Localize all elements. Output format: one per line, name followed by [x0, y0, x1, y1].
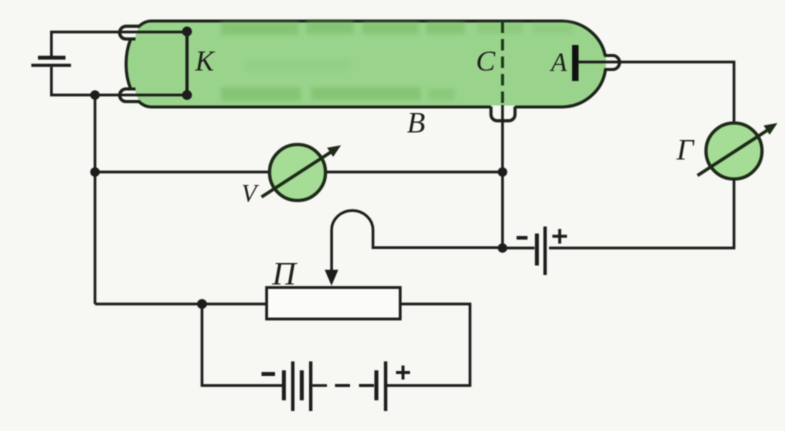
wire: wiper hop — [332, 211, 503, 271]
cathode seal bottom (glass pinch) — [120, 89, 140, 102]
galvanometer Г — [698, 123, 778, 179]
svg-text:В: В — [407, 107, 425, 140]
grid C (dashed electrode) — [501, 22, 504, 106]
potentiometer П body — [267, 288, 401, 320]
dashed link — [335, 384, 374, 387]
filament battery (left) : top short plate — [38, 56, 66, 60]
voltmeter V — [262, 145, 342, 201]
junction: grid wire / anode battery line — [498, 243, 508, 253]
wire: voltmeter line — [95, 171, 503, 174]
wiper arrowhead — [325, 270, 339, 286]
grid seal (bottom pinch) — [491, 106, 515, 121]
wire: anode lead to galvanometer branch — [578, 62, 734, 123]
junction: bottom branch — [197, 299, 207, 309]
svg-text:К: К — [194, 47, 215, 78]
anode battery plus sign — [552, 229, 567, 244]
vacuum tube envelope B — [120, 21, 620, 121]
anode battery: long (positive) plate — [543, 227, 546, 276]
wire: battery top lead — [51, 32, 187, 56]
wire: grid lead down — [501, 105, 504, 248]
main battery cell3 short plate — [374, 370, 378, 400]
cathode seal top (glass pinch) — [120, 26, 140, 39]
main battery cell2 long plate — [309, 361, 312, 411]
svg-text:С: С — [476, 46, 496, 78]
svg-text:А: А — [549, 48, 567, 77]
wire: junction down to main battery — [202, 304, 283, 386]
svg-text:П: П — [271, 257, 298, 293]
svg-text:Г: Г — [675, 134, 695, 167]
wire: battery bottom lead — [51, 67, 187, 95]
wire: left vertical bus — [94, 95, 97, 304]
wire: stub after cell2 — [313, 384, 328, 387]
anode battery minus sign — [517, 236, 528, 240]
wire: main battery to potentiometer right — [387, 304, 470, 386]
main battery cell3 long plate — [384, 361, 387, 411]
anode seal (right pinch) — [605, 56, 620, 70]
wire: galvanometer to anode battery line — [549, 179, 734, 248]
junction: left bus / voltmeter line — [90, 167, 100, 177]
wire: battery to grid node — [503, 247, 535, 250]
cathode K — [182, 27, 192, 101]
main battery cell2 short plate — [300, 370, 304, 400]
wire: left bus to potentiometer — [95, 303, 267, 306]
junction: filament bottom — [90, 90, 100, 100]
anode A bar — [572, 45, 579, 81]
main battery cell1 long plate — [291, 361, 294, 411]
anode battery: short (negative) plate — [535, 234, 539, 266]
main battery minus sign — [262, 372, 276, 376]
main battery cell1 short plate — [282, 370, 286, 400]
main battery plus sign — [396, 366, 410, 380]
junction: grid wire / voltmeter line — [498, 167, 508, 177]
filament battery (left) : bottom long plate — [31, 64, 71, 67]
